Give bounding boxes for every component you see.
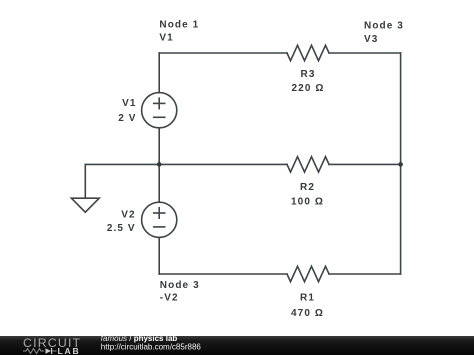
svg-text:R1: R1	[300, 293, 315, 304]
svg-text:Node 3: Node 3	[364, 21, 404, 32]
svg-text:470 Ω: 470 Ω	[291, 308, 324, 319]
svg-text:R2: R2	[300, 182, 315, 193]
svg-text:LAB: LAB	[58, 346, 81, 355]
svg-text:Node 1: Node 1	[159, 20, 199, 31]
svg-text:Node 3: Node 3	[160, 280, 200, 291]
svg-text:100 Ω: 100 Ω	[291, 196, 324, 207]
svg-text:R3: R3	[301, 69, 316, 80]
svg-text:220 Ω: 220 Ω	[292, 83, 325, 94]
svg-text:-V2: -V2	[160, 292, 179, 303]
svg-text:2 V: 2 V	[118, 113, 136, 124]
svg-text:http://circuitlab.com/c85r886: http://circuitlab.com/c85r886	[101, 343, 202, 352]
svg-text:V2: V2	[121, 209, 135, 220]
svg-text:V3: V3	[364, 34, 378, 45]
svg-text:2.5 V: 2.5 V	[107, 223, 136, 234]
svg-text:V1: V1	[159, 33, 173, 44]
svg-text:V1: V1	[122, 98, 136, 109]
